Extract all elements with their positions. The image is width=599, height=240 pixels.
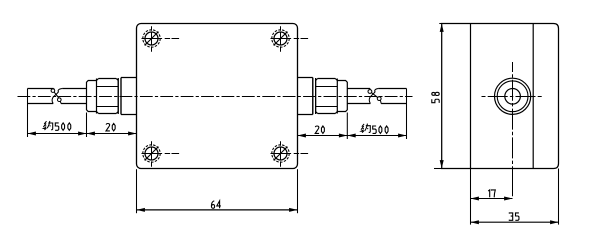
dimension line 35	[471, 221, 559, 223]
dimension line 20 right	[298, 135, 348, 137]
extension line 17/35 left	[470, 169, 472, 225]
dimension line 17	[471, 198, 513, 200]
main block plate	[137, 24, 298, 169]
right gland body	[298, 78, 313, 115]
arrow left end approx500-L	[28, 132, 36, 136]
hole bottom-left	[142, 141, 180, 167]
dimension line 20 left	[87, 133, 137, 135]
shaft hole circle	[505, 89, 521, 105]
extension line 35 right	[558, 169, 560, 225]
label 64	[211, 201, 214, 208]
left gland hex nut	[97, 79, 119, 114]
left cable break S-curve 1 (loop-diagonal-loop)	[51, 89, 55, 93]
dimension line 64	[137, 209, 298, 211]
arrow top end 58	[440, 24, 444, 32]
side view inner edge right	[532, 24, 534, 169]
right cable end cap / extension line	[406, 89, 408, 140]
left cable break S-curve 2	[52, 89, 62, 104]
arrow left end 20-L	[87, 132, 95, 136]
label 58 (rotated)	[432, 92, 439, 103]
label approx500 right	[361, 124, 370, 133]
arrow bottom end 58	[440, 160, 444, 168]
extension line 64 left	[136, 169, 138, 213]
left gland body	[121, 78, 137, 115]
arrow left end 20-R	[298, 134, 306, 138]
left cable end cap / extension line	[27, 89, 29, 138]
main horizontal center line	[18, 96, 413, 98]
arrow right end 17	[504, 197, 512, 201]
arrow right end 35	[550, 220, 558, 224]
label 20 right	[315, 126, 319, 133]
arrow left end 35	[471, 220, 479, 224]
right cable break S-curve 2	[369, 89, 378, 104]
arrow left end 17	[471, 197, 479, 201]
label 35	[509, 213, 512, 220]
right gland washer	[313, 78, 316, 114]
arrow right end 64	[289, 208, 297, 212]
right cable bottom edge	[347, 103, 406, 105]
boss chamfer circle	[497, 81, 528, 112]
hole bottom-right	[271, 141, 309, 167]
left gland ferrule	[87, 81, 97, 112]
extension line left ferrule edge	[86, 113, 88, 138]
dimension line approx500 left	[28, 133, 87, 135]
arrow right end approx500-L	[78, 132, 86, 136]
side view inner edge left	[470, 24, 472, 169]
right gland ferrule	[337, 81, 347, 112]
hole top-right	[271, 26, 309, 52]
left cable top edge	[28, 88, 87, 90]
arrow right end 20-R	[339, 134, 347, 138]
arrow left end approx500-R	[347, 134, 355, 138]
arrow left end 64	[137, 208, 145, 212]
arrow right end 20-L	[128, 132, 136, 136]
boss outer circle	[494, 78, 530, 114]
left cable bottom edge	[28, 103, 87, 105]
right cable break S-curve 1 (loop-diagonal-loop)	[368, 90, 372, 94]
left gland washer	[118, 78, 121, 114]
arrow right end approx500-R	[398, 134, 406, 138]
hole top-left	[142, 26, 180, 52]
label 20 left	[106, 123, 110, 130]
side view outline	[442, 24, 559, 169]
boss vertical center line	[512, 62, 514, 199]
dimension line approx500 right	[347, 135, 406, 137]
extension tick top of 58	[439, 23, 441, 25]
label approx500 left	[43, 121, 52, 130]
right hex flat lines	[316, 87, 338, 107]
extension tick bottom of 58	[434, 168, 442, 170]
extension line 64 right	[297, 169, 299, 213]
boss horizontal center line	[482, 96, 546, 98]
right cable top edge	[347, 88, 406, 90]
extension line right ferrule edge	[346, 113, 348, 140]
label 17	[488, 190, 490, 197]
left hex flat lines	[97, 87, 119, 107]
right gland hex nut	[316, 79, 338, 114]
